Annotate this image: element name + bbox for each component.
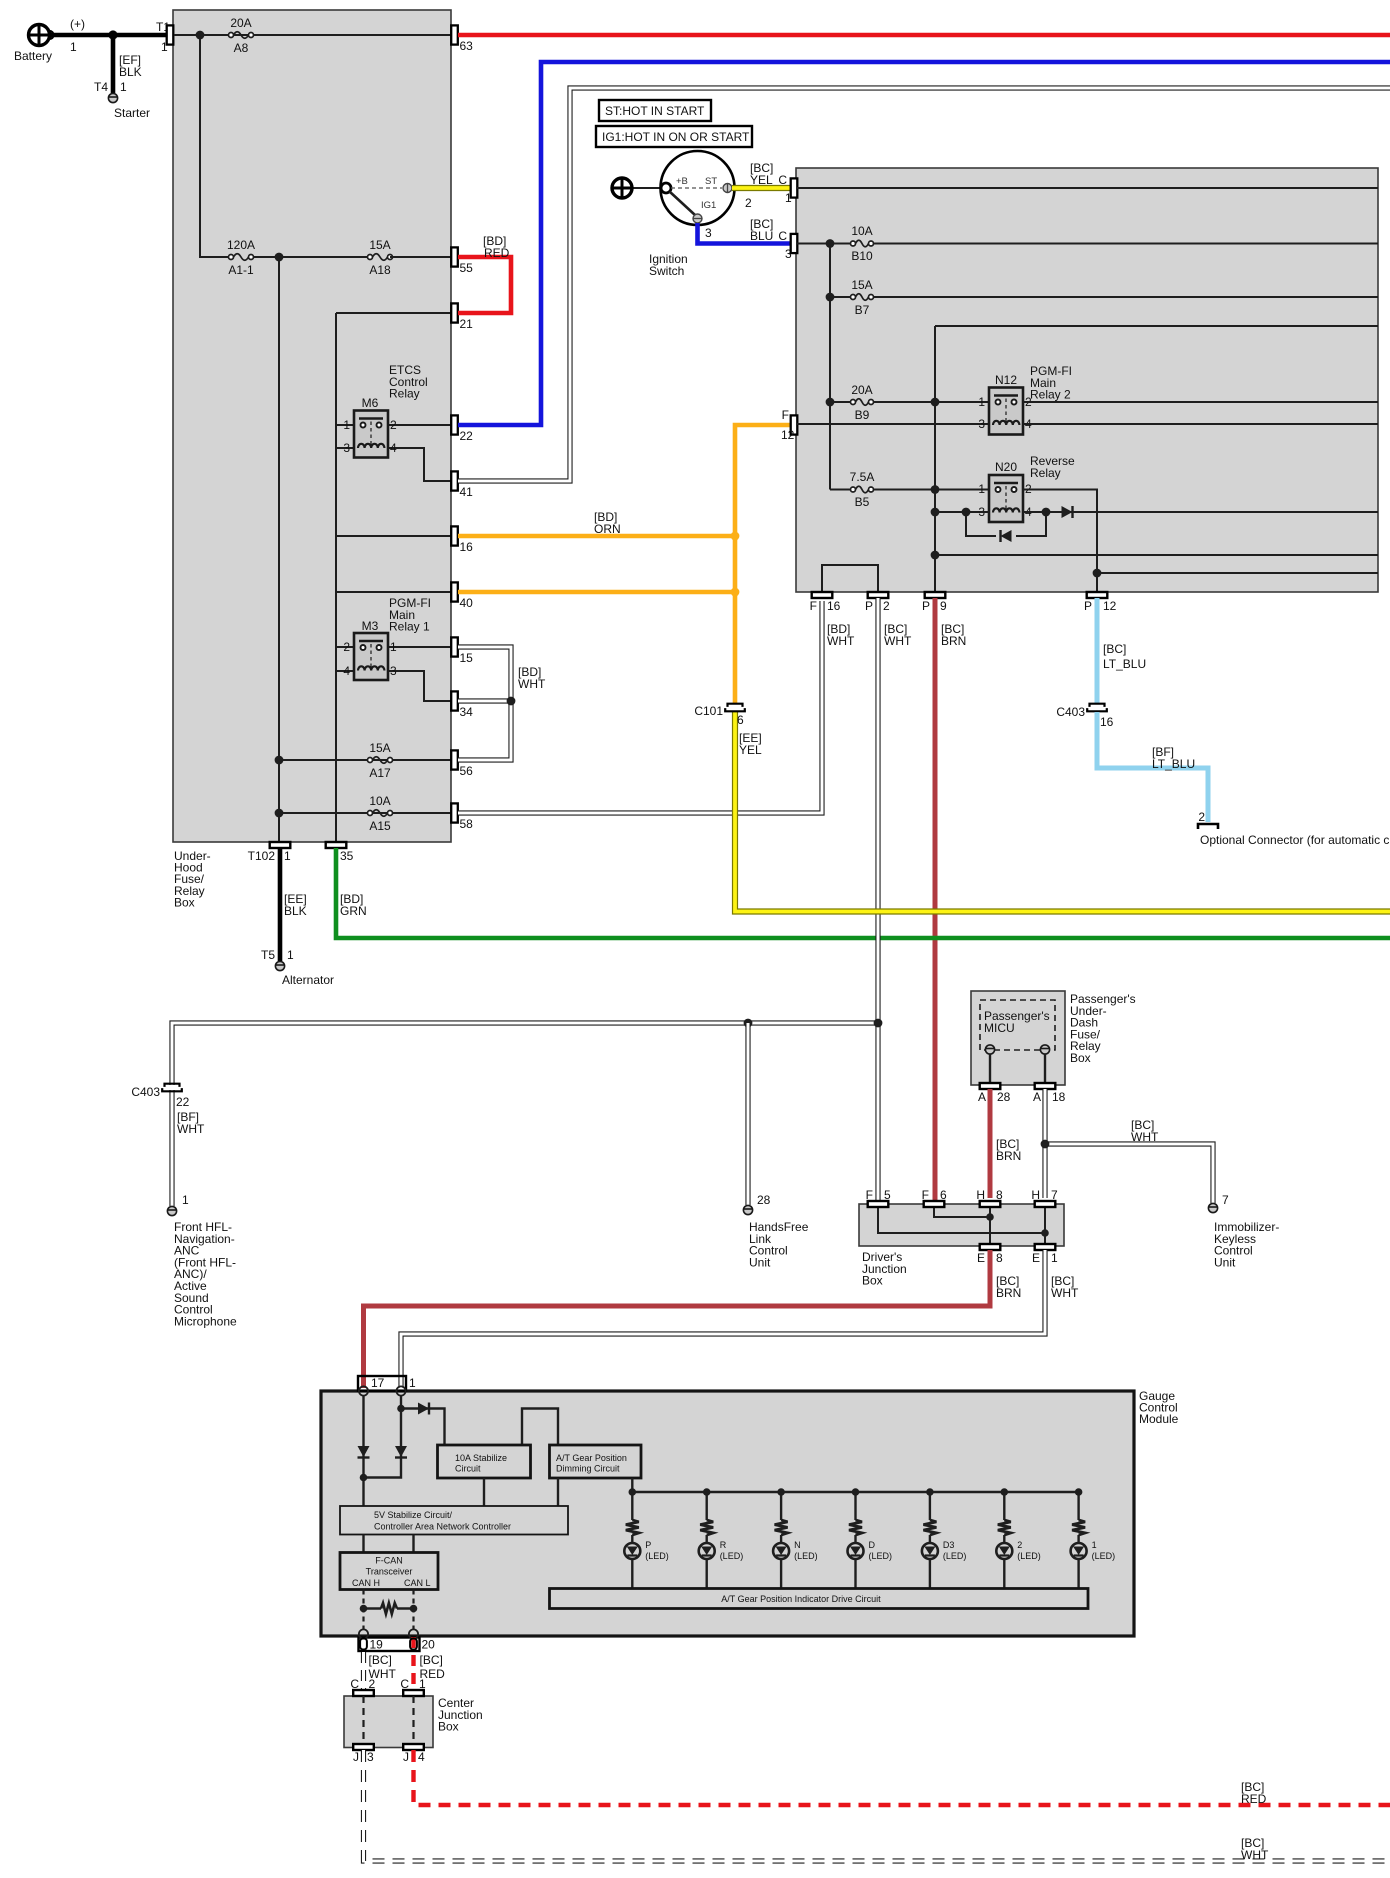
connector F16 <box>812 592 833 598</box>
fuse 7.5A B5 line to N20 pin 1 <box>830 489 852 491</box>
line A/T box to 5V box <box>557 1478 559 1506</box>
BRN wire E8 to gauge module pin 17 [BC] BRN <box>364 1250 991 1388</box>
svg-text:55: 55 <box>460 261 474 275</box>
wire M3 pin 4 to bus <box>336 670 356 672</box>
fuse 15A A18 <box>368 255 373 260</box>
driver box internal H8 to E8 <box>989 1207 991 1244</box>
LED N branch <box>777 1488 785 1496</box>
svg-text:20A: 20A <box>851 383 872 397</box>
LED D <box>848 1543 864 1559</box>
LED P <box>624 1543 640 1559</box>
line N12 pin 2 to right edge <box>1023 401 1378 403</box>
line F12 to N12 pin 3 <box>797 423 989 425</box>
ST contact <box>723 184 732 193</box>
white wire E1 to gauge module pin 1 [BC] WHT <box>401 1250 1045 1388</box>
wire M6 pin 4 to connector 41 <box>385 448 451 481</box>
svg-text:P: P <box>645 1540 651 1550</box>
line N20 pin 4 with diode to right edge <box>1023 511 1378 513</box>
svg-text:M3: M3 <box>362 619 379 633</box>
svg-text:H: H <box>1031 1188 1040 1202</box>
ignition switch body <box>661 151 735 225</box>
svg-text:Unit: Unit <box>1214 1255 1236 1269</box>
svg-text:CAN H: CAN H <box>352 1578 380 1588</box>
LED D3 branch <box>926 1488 934 1496</box>
svg-text:F: F <box>866 1188 873 1202</box>
vertical bus x336 <box>335 313 337 842</box>
pin 1 circle <box>396 1386 405 1395</box>
connector T102 <box>270 842 291 848</box>
svg-text:6: 6 <box>737 713 744 727</box>
svg-text:3: 3 <box>705 226 712 240</box>
svg-text:5V Stabilize Circuit/: 5V Stabilize Circuit/ <box>374 1510 453 1520</box>
white dashed wire J3 down and right [BC] WHT <box>364 1750 1390 1861</box>
svg-text:20A: 20A <box>230 16 251 30</box>
svg-text:YEL: YEL <box>750 173 773 187</box>
resistor for LED N <box>775 1520 788 1535</box>
svg-text:ST:HOT IN START: ST:HOT IN START <box>605 104 705 118</box>
svg-text:3: 3 <box>978 417 985 431</box>
svg-text:1: 1 <box>390 640 397 654</box>
connector T1 <box>167 25 174 44</box>
svg-text:A1-1: A1-1 <box>228 263 254 277</box>
connector C2 <box>353 1690 374 1696</box>
svg-text:1: 1 <box>1051 1251 1058 1265</box>
svg-text:WHT: WHT <box>177 1122 205 1136</box>
svg-text:T102: T102 <box>248 849 276 863</box>
svg-text:H: H <box>976 1188 985 1202</box>
svg-text:1: 1 <box>1092 1540 1097 1550</box>
LED 2 branch <box>1001 1488 1009 1496</box>
svg-text:6: 6 <box>940 1188 947 1202</box>
svg-text:A/T Gear Position: A/T Gear Position <box>556 1453 627 1463</box>
junction 120A/A18/bus <box>275 253 284 262</box>
connector C3 <box>791 234 798 253</box>
svg-text:BLK: BLK <box>284 904 307 918</box>
svg-text:IG1:HOT IN ON OR START: IG1:HOT IN ON OR START <box>602 130 750 144</box>
ETCS Control Relay M6 <box>354 411 388 458</box>
line terminal to A18 <box>1044 1054 1046 1083</box>
PGM-FI Main Relay 1 M3 <box>354 633 388 680</box>
starter terminal <box>108 93 117 102</box>
connector H7 <box>1035 1201 1056 1207</box>
wire down to 120A fuse line <box>200 35 230 257</box>
LED R branch <box>703 1488 711 1496</box>
connector 15 <box>451 637 458 656</box>
line N20 pin 2 to P12 riser <box>1023 490 1097 593</box>
svg-text:WHT: WHT <box>827 634 855 648</box>
bus A vertical <box>829 244 831 490</box>
svg-text:A17: A17 <box>369 766 391 780</box>
white wire 58 to F16 <box>458 601 822 813</box>
connector E1 <box>1035 1244 1056 1250</box>
svg-text:1: 1 <box>120 80 127 94</box>
line pin 1 to diodes <box>400 1395 402 1472</box>
ST:HOT IN START callout <box>599 100 711 121</box>
svg-text:BRN: BRN <box>996 1286 1021 1300</box>
svg-text:B5: B5 <box>855 495 870 509</box>
svg-text:4: 4 <box>418 1750 425 1764</box>
svg-text:A: A <box>1033 1090 1041 1104</box>
svg-text:1: 1 <box>409 1376 416 1390</box>
connector P2 <box>868 592 889 598</box>
svg-text:C403: C403 <box>1056 705 1085 719</box>
LED D3 <box>922 1543 938 1559</box>
svg-text:BRN: BRN <box>941 634 966 648</box>
svg-text:Circuit: Circuit <box>455 1464 481 1474</box>
connector 58 <box>451 803 458 822</box>
F16-P2 link loop <box>822 565 878 595</box>
connector P9 <box>925 592 946 598</box>
svg-text:Box: Box <box>174 895 195 909</box>
svg-text:2: 2 <box>1017 1540 1022 1550</box>
svg-text:F: F <box>782 408 789 422</box>
svg-text:Unit: Unit <box>749 1255 771 1269</box>
wire T102 to alternator [EE] BLK <box>278 848 283 961</box>
svg-text:(LED): (LED) <box>1092 1551 1116 1561</box>
blue wire IG1 to C3 [BC] BLU <box>698 223 792 244</box>
line N12 pin 4 to right edge <box>1023 423 1378 425</box>
svg-text:12: 12 <box>781 428 795 442</box>
svg-text:7: 7 <box>1222 1193 1229 1207</box>
svg-text:A: A <box>978 1090 986 1104</box>
svg-text:15A: 15A <box>369 741 390 755</box>
front mic terminal 1 <box>167 1206 176 1215</box>
connector H8 <box>980 1201 1001 1207</box>
svg-text:C: C <box>350 1677 359 1691</box>
connector E8 <box>980 1244 1001 1250</box>
red wire loop 55 to 21 [BD] RED <box>458 257 511 313</box>
svg-text:Dimming Circuit: Dimming Circuit <box>556 1464 620 1474</box>
connector 21 <box>451 303 458 322</box>
svg-text:C403: C403 <box>131 1085 160 1099</box>
wire bus to connector 16 <box>336 535 451 537</box>
10A Stabilize Circuit box <box>438 1445 531 1478</box>
svg-text:[BC]: [BC] <box>420 1653 443 1667</box>
LED 1 <box>1071 1543 1087 1559</box>
wire junction battery/starter <box>108 30 117 39</box>
svg-text:1: 1 <box>287 948 294 962</box>
svg-text:WHT: WHT <box>518 677 546 691</box>
svg-text:CAN L: CAN L <box>404 1578 431 1588</box>
svg-text:15A: 15A <box>851 278 872 292</box>
svg-text:40: 40 <box>460 596 474 610</box>
svg-text:1: 1 <box>343 418 350 432</box>
svg-text:21: 21 <box>460 317 474 331</box>
alternator terminal T5 <box>275 961 284 970</box>
pin 19 circle <box>359 1629 368 1638</box>
resistor for LED P <box>626 1520 639 1535</box>
svg-text:B7: B7 <box>855 303 870 317</box>
dashed line inside center box (right) <box>412 1696 414 1744</box>
fuse 15A A17 line <box>279 759 451 761</box>
line P12 junction to right edge <box>1097 572 1378 574</box>
red dashed wire 20 [BC] RED <box>411 1637 415 1690</box>
svg-text:R: R <box>720 1540 727 1550</box>
svg-text:Relay 1: Relay 1 <box>389 620 430 634</box>
svg-text:20: 20 <box>422 1638 436 1652</box>
svg-text:2: 2 <box>883 599 890 613</box>
svg-text:19: 19 <box>370 1638 384 1652</box>
svg-text:15A: 15A <box>369 238 390 252</box>
svg-text:WHT: WHT <box>1131 1130 1159 1144</box>
wire M3 pin 1 to connector 15 <box>385 646 451 648</box>
svg-text:C: C <box>400 1677 409 1691</box>
ignition lever to IG1 <box>670 192 696 216</box>
svg-text:A15: A15 <box>369 819 391 833</box>
fuse 20A B9 line to N12 pin 1 <box>830 401 852 403</box>
svg-text:5: 5 <box>884 1188 891 1202</box>
svg-text:(LED): (LED) <box>869 1551 893 1561</box>
svg-text:LT_BLU: LT_BLU <box>1152 757 1195 771</box>
white wire 41 up and right [BD] WHT <box>458 88 1390 481</box>
svg-text:8: 8 <box>996 1188 1003 1202</box>
svg-text:Starter: Starter <box>114 106 150 120</box>
svg-text:120A: 120A <box>227 238 255 252</box>
dashed line inside center box (left) <box>362 1696 364 1744</box>
svg-text:(LED): (LED) <box>794 1551 818 1561</box>
svg-text:Relay: Relay <box>389 387 420 401</box>
svg-text:M6: M6 <box>362 396 379 410</box>
svg-text:3: 3 <box>367 1750 374 1764</box>
svg-text:WHT: WHT <box>1051 1286 1079 1300</box>
red dashed wire J4 down and right [BC] RED <box>414 1750 1390 1805</box>
svg-text:1: 1 <box>70 40 77 54</box>
svg-text:10A: 10A <box>369 794 390 808</box>
wire bus to M3 pin 2 <box>336 646 356 648</box>
svg-text:A8: A8 <box>234 41 249 55</box>
svg-text:56: 56 <box>460 764 474 778</box>
connector F6 <box>924 1201 945 1207</box>
connector J4 <box>403 1744 424 1750</box>
5V Stabilize box <box>340 1506 568 1535</box>
svg-text:3: 3 <box>390 664 397 678</box>
svg-text:35: 35 <box>340 849 354 863</box>
gauge connector housing 17/1 <box>358 1376 406 1391</box>
Passenger's Under-Dash Fuse/Relay Box <box>971 991 1065 1085</box>
svg-text:E: E <box>1032 1251 1040 1265</box>
Gauge Control Module box <box>321 1391 1134 1636</box>
svg-text:WHT: WHT <box>884 634 912 648</box>
svg-text:12: 12 <box>1103 599 1117 613</box>
yellow wire C101 down right [EE] YEL <box>735 712 1390 912</box>
svg-text:F: F <box>922 1188 929 1202</box>
svg-text:D3: D3 <box>943 1540 955 1550</box>
svg-text:Module: Module <box>1139 1412 1179 1426</box>
white wire loop 15-34-56 [BD] WHT <box>458 647 511 760</box>
connector C403 22 <box>165 1084 180 1087</box>
svg-text:LT_BLU: LT_BLU <box>1103 657 1146 671</box>
diode loop under N20 <box>966 512 996 536</box>
fuse 10A B10 <box>851 241 856 246</box>
connector F12 <box>791 415 798 434</box>
line terminal to A28 <box>989 1054 991 1083</box>
svg-text:17: 17 <box>371 1376 385 1390</box>
connector P12 <box>1087 592 1108 598</box>
line C3 to fuse B10 and across <box>797 243 852 245</box>
svg-text:8: 8 <box>996 1251 1003 1265</box>
A/T Gear Position Dimming Circuit box <box>550 1445 642 1478</box>
connector C1 (center box) <box>403 1690 424 1696</box>
connector A28 <box>980 1083 1001 1089</box>
bus B vertical (P9 riser) <box>934 326 936 592</box>
connector C1 <box>791 178 798 197</box>
line bus B y555 to right edge <box>935 554 1378 556</box>
green wire 35 down [BD] GRN <box>336 848 1390 938</box>
passenger MICU terminals <box>985 1045 994 1054</box>
LED 1 branch <box>1075 1488 1083 1496</box>
svg-text:(LED): (LED) <box>720 1551 744 1561</box>
connector 63 <box>451 25 458 44</box>
handsfree terminal 28 <box>743 1205 752 1214</box>
line 10A box to 5V box <box>483 1478 485 1506</box>
svg-text:2: 2 <box>1198 810 1205 824</box>
connector 56 <box>451 750 458 769</box>
white dashed wire 19 [BC] WHT <box>361 1652 366 1690</box>
white wire down to handsfree 28 <box>745 1023 750 1205</box>
svg-text:A18: A18 <box>369 263 391 277</box>
line A/T box to LED bus <box>631 1478 633 1492</box>
connector J3 <box>353 1744 374 1750</box>
svg-text:Transceiver: Transceiver <box>366 1567 413 1577</box>
Driver's Junction Box <box>859 1204 1064 1246</box>
wire M6 pin 2 to connector 22 <box>385 424 451 426</box>
svg-text:[BC]: [BC] <box>369 1653 392 1667</box>
junction white at P2 drop <box>874 1019 883 1028</box>
wire bus to connector 40 <box>336 591 451 593</box>
optional connector 2 <box>1198 824 1218 829</box>
lines 5V box to F-CAN <box>362 1535 364 1553</box>
Under-Hood Fuse/Relay Box <box>173 10 451 842</box>
svg-text:Alternator: Alternator <box>282 973 334 987</box>
IG1:HOT IN ON OR START callout <box>596 126 752 147</box>
svg-text:P: P <box>922 599 930 613</box>
LED D branch <box>852 1488 860 1496</box>
svg-text:B10: B10 <box>851 249 873 263</box>
svg-text:2: 2 <box>343 640 350 654</box>
svg-text:T4: T4 <box>94 80 108 94</box>
LT_BLU wire P12 to C403 16 [BC] LT_BLU <box>1095 598 1100 703</box>
svg-text:C: C <box>778 173 787 187</box>
svg-text:1: 1 <box>284 849 291 863</box>
svg-text:P: P <box>865 599 873 613</box>
white wire C403 22 down to mic <box>169 1090 174 1206</box>
connector C101 6 <box>728 704 743 707</box>
svg-text:N20: N20 <box>995 460 1017 474</box>
dashed CAN H line <box>362 1590 364 1631</box>
svg-text:Box: Box <box>862 1274 883 1288</box>
junction on 20A line <box>196 31 205 40</box>
svg-text:18: 18 <box>1052 1090 1066 1104</box>
battery symbol <box>29 25 50 46</box>
svg-text:2: 2 <box>390 418 397 432</box>
resistor for LED 1 <box>1072 1520 1085 1535</box>
CAN termination resistor <box>360 1605 368 1613</box>
connector C403 16 <box>1090 704 1105 707</box>
svg-text:C101: C101 <box>694 704 723 718</box>
svg-text:N12: N12 <box>995 373 1017 387</box>
connector A18 <box>1035 1083 1056 1089</box>
connector 34 <box>451 691 458 710</box>
svg-text:Box: Box <box>438 1720 459 1734</box>
svg-text:F-CAN: F-CAN <box>375 1556 403 1566</box>
dashed CAN L line <box>412 1590 414 1631</box>
driver box internal F5 to H7 <box>878 1207 1045 1233</box>
bridge wire 10A box to A/T box <box>522 1409 558 1446</box>
svg-text:IG1: IG1 <box>701 200 716 211</box>
svg-text:F: F <box>810 599 817 613</box>
wire bus to M6 pin 1 <box>336 424 356 426</box>
fuse 10A A15 line <box>279 812 451 814</box>
svg-text:28: 28 <box>757 1193 771 1207</box>
svg-text:C: C <box>778 229 787 243</box>
svg-text:RED: RED <box>484 246 510 260</box>
svg-text:MICU: MICU <box>984 1021 1015 1035</box>
connector F5 <box>868 1201 889 1207</box>
vertical bus to T102 <box>278 257 280 842</box>
svg-text:ORN: ORN <box>594 522 621 536</box>
line C1 across box <box>797 187 1378 189</box>
svg-text:A/T Gear Position Indicator Dr: A/T Gear Position Indicator Drive Circui… <box>721 1594 881 1604</box>
PGM-FI Main Relay 2 N12 <box>989 388 1023 435</box>
BRN wire A28 to H8 [BC] BRN <box>988 1089 993 1198</box>
connector 22 <box>451 415 458 434</box>
svg-text:B9: B9 <box>855 408 870 422</box>
svg-text:Relay 2: Relay 2 <box>1030 388 1071 402</box>
svg-text:(+): (+) <box>70 17 85 31</box>
F-CAN Transceiver box <box>340 1553 438 1590</box>
junction white to handsfree <box>744 1019 753 1028</box>
LED P branch <box>629 1488 637 1496</box>
LED 2 <box>996 1543 1012 1559</box>
blue wire 22 to right edge <box>458 62 1390 425</box>
resistor for LED 2 <box>998 1520 1011 1535</box>
svg-text:1: 1 <box>419 1677 426 1691</box>
white wire P2 down to F5 [BC] WHT <box>875 598 880 1201</box>
svg-text:YEL: YEL <box>739 743 762 757</box>
connector 41 <box>451 471 458 490</box>
svg-text:1: 1 <box>978 482 985 496</box>
terminal pill 19 <box>360 1639 367 1650</box>
svg-text:22: 22 <box>460 429 474 443</box>
svg-text:63: 63 <box>460 39 474 53</box>
svg-text:15: 15 <box>460 651 474 665</box>
svg-text:2: 2 <box>745 196 752 210</box>
LED bus line <box>632 1491 1078 1493</box>
line bus B to N20 pin 3 <box>935 511 989 513</box>
svg-text:58: 58 <box>460 817 474 831</box>
driver box internal H7 to E1 <box>1044 1207 1046 1244</box>
svg-text:T5: T5 <box>261 948 275 962</box>
Under-Dash Fuse/Relay Box (right) <box>796 168 1378 592</box>
svg-text:3: 3 <box>343 441 350 455</box>
resistor for LED D <box>849 1520 862 1535</box>
svg-text:J: J <box>403 1750 409 1764</box>
svg-text:41: 41 <box>460 485 474 499</box>
svg-text:Battery: Battery <box>14 49 52 63</box>
svg-text:2: 2 <box>369 1677 376 1691</box>
svg-text:GRN: GRN <box>340 904 367 918</box>
svg-text:Switch: Switch <box>649 264 684 278</box>
svg-text:Controller Area Network Contro: Controller Area Network Controller <box>374 1522 511 1532</box>
svg-text:34: 34 <box>460 705 474 719</box>
IG1 contact <box>693 214 702 223</box>
svg-text:BRN: BRN <box>996 1149 1021 1163</box>
BRN wire P9 down to F6 [BC] BRN <box>933 598 938 1201</box>
svg-text:10A: 10A <box>851 224 872 238</box>
resistor for LED D3 <box>923 1520 936 1535</box>
white wire A18 to H7 and immobilizer [BC] WHT <box>1042 1089 1047 1198</box>
wire M3 pin 3 to connector 34 <box>385 671 451 701</box>
